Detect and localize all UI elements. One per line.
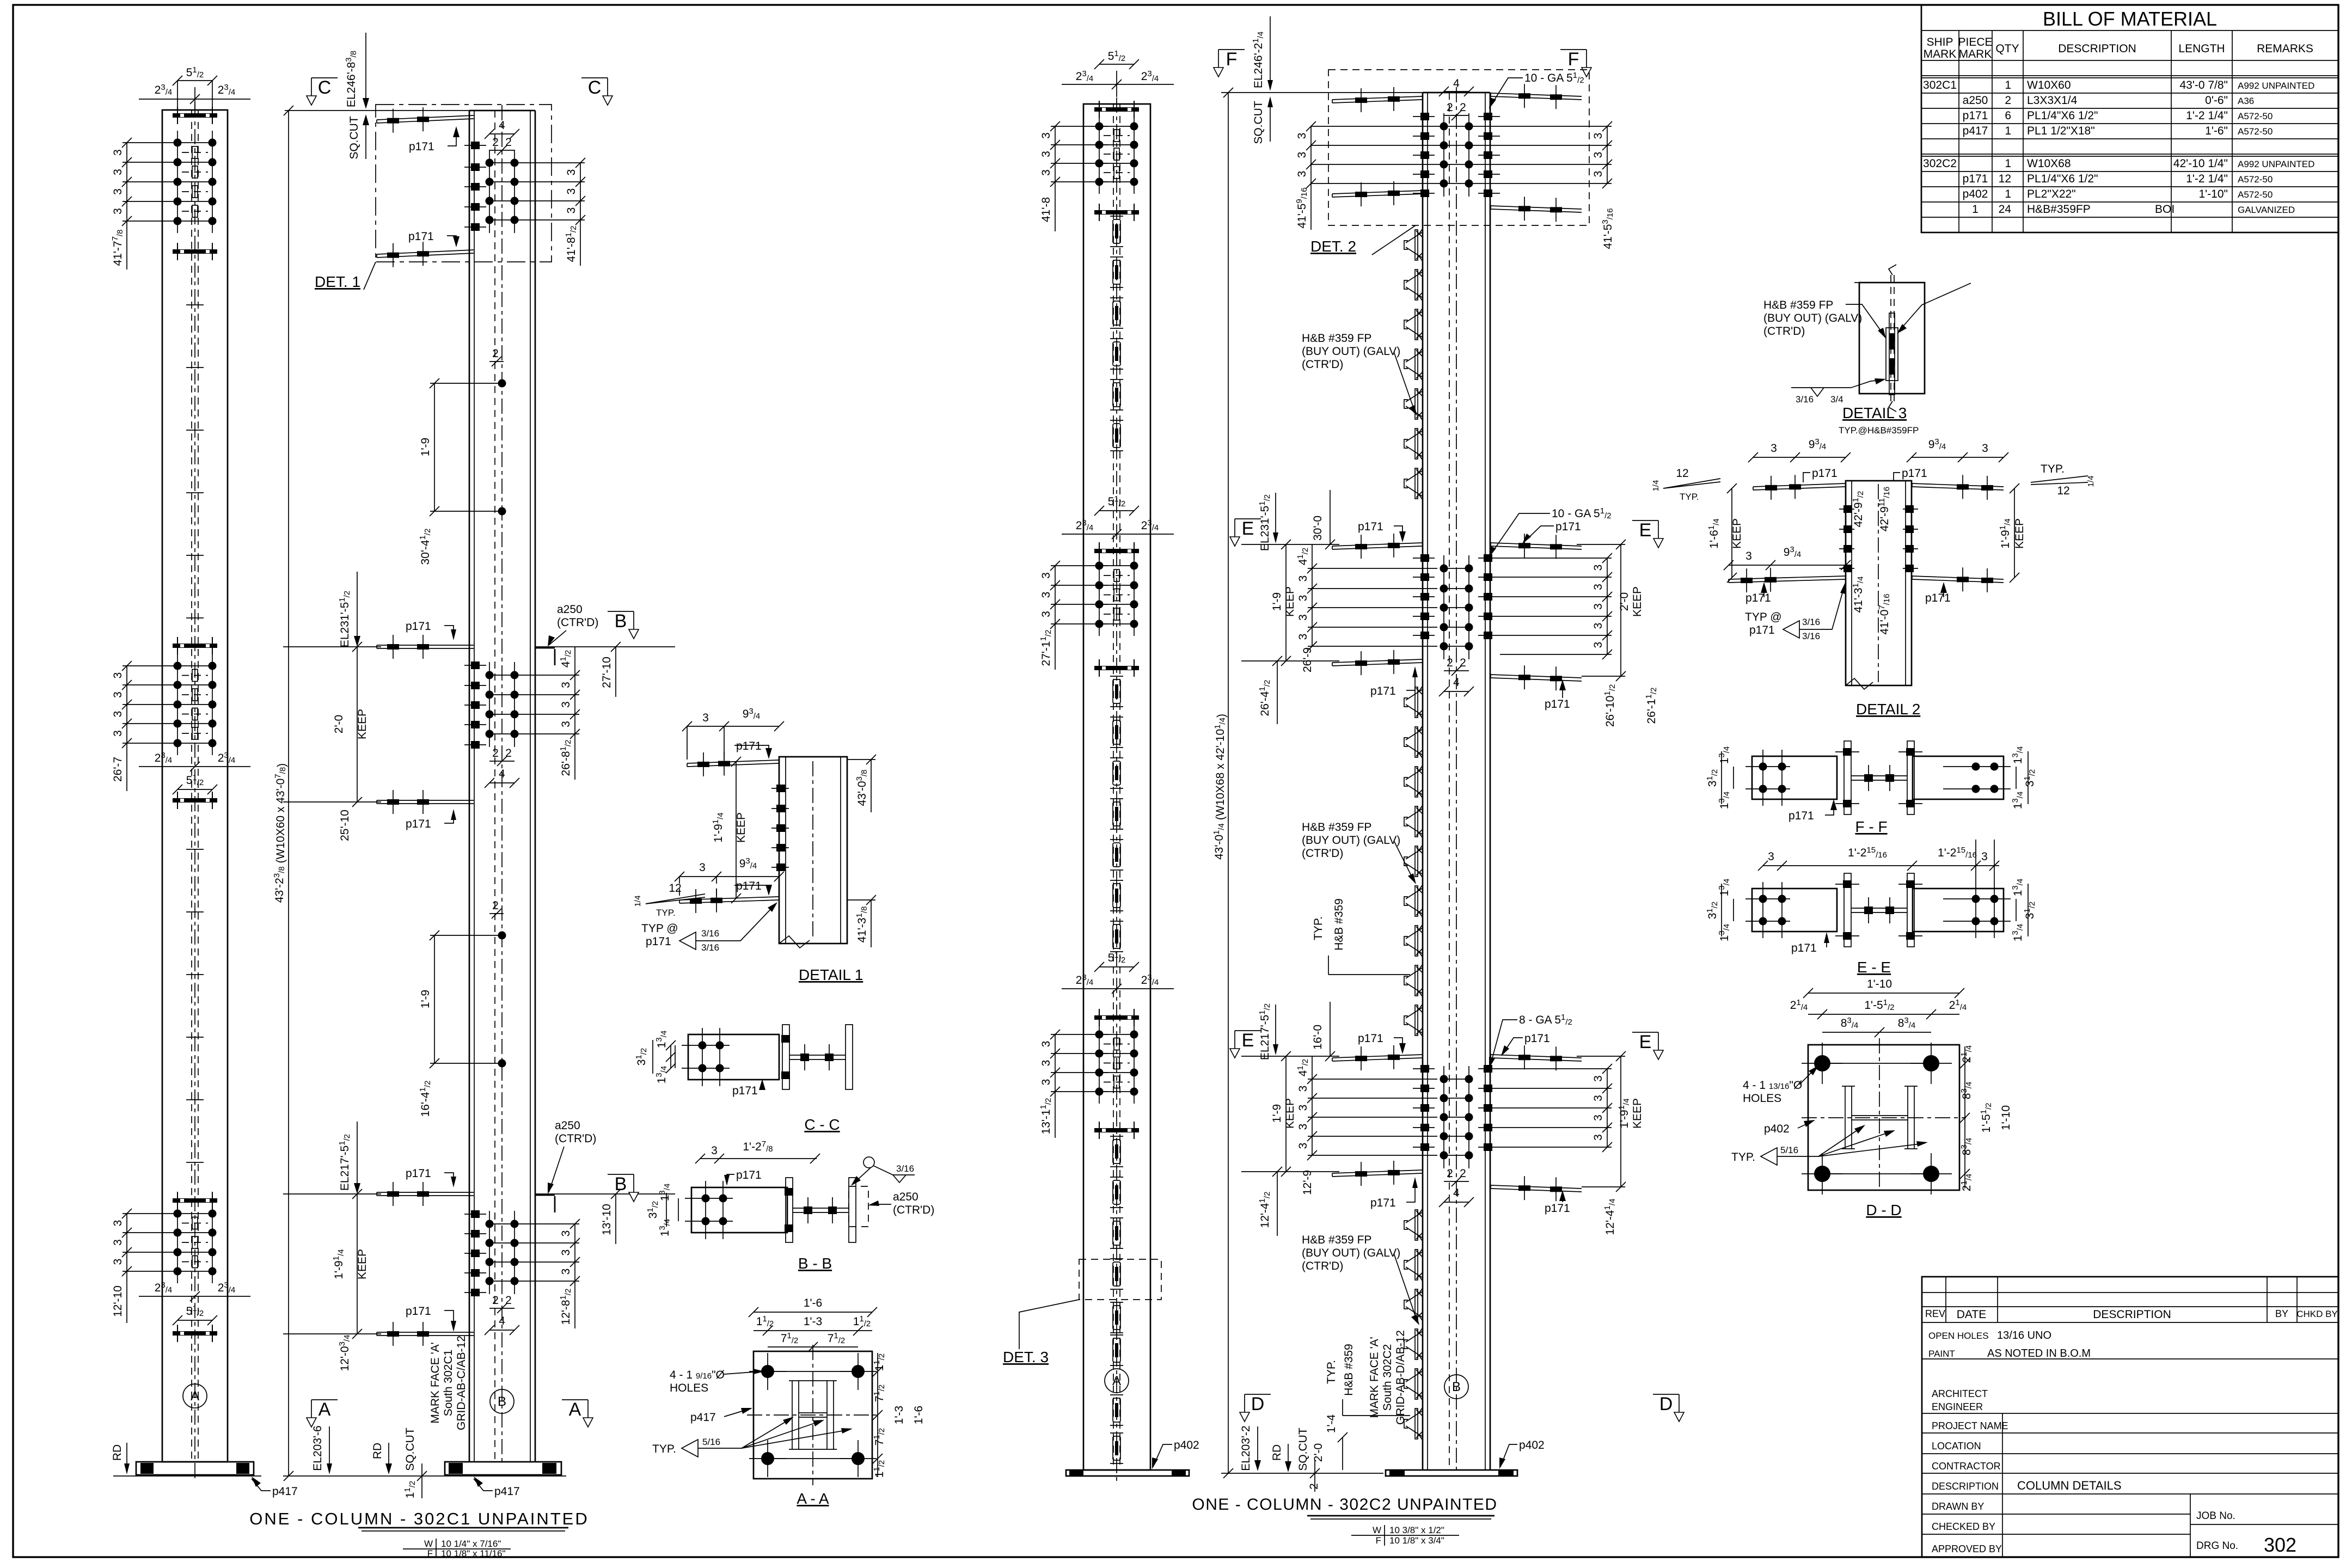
svg-text:A: A bbox=[569, 1399, 581, 1420]
svg-text:302C2: 302C2 bbox=[1923, 157, 1957, 170]
svg-text:DRG No.: DRG No. bbox=[2196, 1540, 2238, 1552]
svg-text:DATE: DATE bbox=[1957, 1308, 1986, 1321]
svg-text:SQ.CUT: SQ.CUT bbox=[1252, 101, 1265, 144]
svg-text:OPEN HOLES: OPEN HOLES bbox=[1928, 1331, 1989, 1341]
svg-text:REV.: REV. bbox=[1925, 1308, 1947, 1319]
svg-text:SQ.CUT: SQ.CUT bbox=[1297, 1428, 1309, 1471]
svg-text:H&B #359 FP: H&B #359 FP bbox=[1302, 1234, 1371, 1246]
svg-text:F: F bbox=[1376, 1535, 1381, 1546]
svg-text:3: 3 bbox=[1745, 550, 1752, 562]
svg-text:3/16: 3/16 bbox=[701, 942, 719, 953]
svg-text:1/4: 1/4 bbox=[2086, 476, 2096, 487]
svg-text:3: 3 bbox=[1297, 575, 1309, 582]
svg-text:25'-10: 25'-10 bbox=[339, 810, 351, 841]
svg-text:302: 302 bbox=[2264, 1534, 2296, 1556]
svg-text:2: 2 bbox=[492, 1294, 499, 1307]
svg-text:TYP @: TYP @ bbox=[641, 922, 678, 935]
base plate p417 web view bbox=[445, 1462, 561, 1475]
svg-text:12'-9: 12'-9 bbox=[1301, 1170, 1314, 1195]
svg-text:KEEP: KEEP bbox=[356, 1249, 369, 1279]
svg-text:1'-10: 1'-10 bbox=[2000, 1105, 2012, 1130]
svg-text:p171: p171 bbox=[736, 740, 762, 752]
middle cluster bottom gage dims 2 2 / 4 bbox=[485, 747, 519, 788]
p171 labels bottom cluster bbox=[406, 1167, 456, 1332]
svg-text:CHECKED BY: CHECKED BY bbox=[1932, 1521, 1995, 1532]
p171 labels top cluster bbox=[408, 126, 460, 247]
svg-text:3/16: 3/16 bbox=[1796, 394, 1814, 405]
svg-text:2: 2 bbox=[1447, 657, 1453, 669]
svg-text:p171: p171 bbox=[1745, 592, 1771, 604]
svg-text:3: 3 bbox=[112, 188, 124, 195]
svg-text:C: C bbox=[318, 77, 332, 98]
svg-text:(BUY OUT) (GALV): (BUY OUT) (GALV) bbox=[1302, 834, 1400, 847]
svg-text:H&B #359 FP: H&B #359 FP bbox=[1302, 332, 1371, 345]
svg-text:3: 3 bbox=[1592, 1095, 1604, 1101]
svg-text:KEEP: KEEP bbox=[2013, 518, 2026, 549]
302C1 flange middle cluster dims bbox=[112, 661, 250, 794]
svg-text:3: 3 bbox=[1592, 642, 1604, 648]
MARK FACE note 302C1 bbox=[429, 1336, 468, 1430]
DET.1 boundary box bbox=[376, 105, 552, 262]
svg-text:p417: p417 bbox=[690, 1411, 716, 1424]
bottom cluster right dims bbox=[514, 1189, 675, 1328]
svg-text:H&B #359 FP: H&B #359 FP bbox=[1302, 821, 1371, 834]
svg-text:13'-10: 13'-10 bbox=[601, 1204, 613, 1235]
svg-text:3: 3 bbox=[1296, 133, 1308, 139]
svg-text:3: 3 bbox=[1040, 169, 1052, 176]
svg-text:42'-10 1/4": 42'-10 1/4" bbox=[2173, 157, 2228, 170]
svg-text:PL2"X22": PL2"X22" bbox=[2027, 188, 2076, 200]
svg-text:RD: RD bbox=[111, 1444, 124, 1461]
svg-text:E: E bbox=[1639, 520, 1652, 541]
svg-text:DETAIL 2: DETAIL 2 bbox=[1856, 701, 1920, 718]
svg-text:LENGTH: LENGTH bbox=[2178, 42, 2225, 55]
svg-text:p171: p171 bbox=[1358, 520, 1383, 533]
svg-text:2: 2 bbox=[505, 136, 512, 149]
svg-text:H&B#359FP: H&B#359FP bbox=[2027, 203, 2091, 216]
svg-text:1'-3: 1'-3 bbox=[804, 1315, 822, 1328]
302C2 web middle cluster p171 plates and bolts bbox=[1332, 534, 1582, 690]
svg-text:4: 4 bbox=[1453, 1187, 1460, 1199]
svg-text:PAINT: PAINT bbox=[1928, 1349, 1955, 1359]
svg-text:2: 2 bbox=[1460, 657, 1466, 669]
svg-text:30'-0: 30'-0 bbox=[1312, 516, 1324, 541]
svg-text:(CTR'D): (CTR'D) bbox=[557, 616, 598, 629]
svg-text:PIECE: PIECE bbox=[1958, 36, 1992, 48]
mark A bubble (302C1) bbox=[183, 1384, 207, 1408]
svg-text:KEEP: KEEP bbox=[1284, 1098, 1296, 1129]
svg-text:5/16: 5/16 bbox=[1780, 1145, 1798, 1155]
svg-text:GRID-AB-C/AB-12: GRID-AB-C/AB-12 bbox=[455, 1336, 468, 1430]
svg-text:PL1/4"X6 1/2": PL1/4"X6 1/2" bbox=[2027, 173, 2098, 185]
svg-text:4: 4 bbox=[499, 768, 505, 780]
svg-text:3/16: 3/16 bbox=[1802, 631, 1820, 641]
TYP / H&B #359 rotated labels bbox=[1312, 898, 1410, 1470]
svg-text:KEEP: KEEP bbox=[1284, 586, 1296, 617]
svg-text:2: 2 bbox=[492, 136, 499, 149]
svg-text:3: 3 bbox=[1040, 1079, 1052, 1086]
EL203-2 note 302C2 bbox=[1240, 1425, 1320, 1492]
svg-text:A572-50: A572-50 bbox=[2238, 189, 2273, 200]
svg-text:27'-10: 27'-10 bbox=[601, 657, 613, 688]
svg-text:(CTR'D): (CTR'D) bbox=[1763, 325, 1805, 338]
top cluster dims 302C2 bbox=[1295, 71, 1615, 249]
svg-text:43'-01/4 (W10X68 x 42'-101/4): 43'-01/4 (W10X68 x 42'-101/4) bbox=[1212, 714, 1228, 860]
svg-text:302C1: 302C1 bbox=[1923, 79, 1957, 91]
svg-text:3: 3 bbox=[1592, 565, 1604, 571]
middle cluster left dims 302C2 bbox=[1241, 490, 1437, 724]
svg-text:p417: p417 bbox=[1963, 125, 1988, 137]
svg-text:1'-3: 1'-3 bbox=[893, 1406, 905, 1424]
svg-text:3: 3 bbox=[1297, 1086, 1309, 1092]
a250 angle clip at EL231 bbox=[536, 603, 598, 665]
302C1 flange view middle connection cluster bbox=[173, 637, 217, 809]
svg-text:DRAWN BY: DRAWN BY bbox=[1932, 1501, 1984, 1512]
column 302C1 web view bbox=[283, 105, 566, 1498]
svg-text:p402: p402 bbox=[1764, 1123, 1790, 1135]
svg-text:3/4: 3/4 bbox=[1830, 394, 1843, 405]
svg-text:AS NOTED IN B.O.M: AS NOTED IN B.O.M bbox=[1987, 1347, 2091, 1359]
scale table W/F 302C1 bbox=[403, 1539, 511, 1559]
mark B bubble (302C2 web) bbox=[1444, 1375, 1468, 1399]
svg-text:(BUY OUT) (GALV): (BUY OUT) (GALV) bbox=[1302, 1247, 1400, 1259]
302C1 web bottom cluster p171 plates and bolts bbox=[377, 1182, 519, 1346]
svg-text:6: 6 bbox=[2005, 109, 2011, 122]
DETAIL 2 drawing bbox=[1651, 437, 2096, 718]
svg-text:3: 3 bbox=[560, 701, 572, 708]
svg-text:H&B #359 FP: H&B #359 FP bbox=[1763, 299, 1833, 311]
svg-text:p171: p171 bbox=[1791, 942, 1817, 954]
lower cluster right dims 302C2 bbox=[1489, 1013, 1644, 1235]
svg-text:B: B bbox=[1452, 1380, 1461, 1394]
svg-text:12: 12 bbox=[2057, 485, 2069, 497]
svg-text:3: 3 bbox=[560, 682, 572, 688]
svg-text:24: 24 bbox=[1999, 203, 2012, 216]
svg-text:3: 3 bbox=[560, 1269, 572, 1275]
svg-text:W: W bbox=[1373, 1525, 1381, 1535]
svg-text:2: 2 bbox=[492, 899, 499, 912]
svg-text:E: E bbox=[1242, 518, 1254, 539]
svg-text:4: 4 bbox=[499, 1315, 505, 1327]
middle cluster right dims 302C2 bbox=[1489, 506, 1658, 727]
svg-text:p171: p171 bbox=[1545, 1202, 1570, 1215]
svg-text:A992 UNPAINTED: A992 UNPAINTED bbox=[2238, 159, 2314, 169]
svg-text:DESCRIPTION: DESCRIPTION bbox=[2058, 42, 2136, 55]
DET. 3 label bbox=[1003, 1300, 1079, 1365]
302C1 flange view bottom connection cluster bbox=[173, 1192, 217, 1342]
svg-text:W10X60: W10X60 bbox=[2027, 79, 2071, 91]
svg-text:2: 2 bbox=[492, 747, 499, 759]
column 302C2 web view bbox=[1221, 87, 1545, 1476]
elevation datum top 302C2 bbox=[1212, 16, 1423, 1478]
svg-text:1: 1 bbox=[2005, 188, 2011, 200]
svg-text:3: 3 bbox=[702, 712, 709, 724]
svg-text:RD: RD bbox=[1271, 1444, 1283, 1461]
column 302C1 flange view bbox=[136, 65, 298, 1498]
top width dims 5 1/2 and 2 3/4 bbox=[139, 65, 250, 122]
svg-text:12: 12 bbox=[1676, 467, 1688, 480]
svg-text:3: 3 bbox=[1592, 584, 1604, 590]
RD note left column bbox=[111, 1443, 261, 1476]
svg-text:2: 2 bbox=[1447, 1167, 1453, 1180]
svg-text:D - D: D - D bbox=[1866, 1202, 1901, 1218]
section D-D base plate plan bbox=[1731, 978, 2012, 1218]
svg-text:a250: a250 bbox=[555, 1119, 580, 1132]
DETAIL 1 drawing bbox=[633, 707, 876, 983]
svg-text:p171: p171 bbox=[1358, 1032, 1383, 1045]
svg-text:12'-10: 12'-10 bbox=[112, 1285, 124, 1317]
svg-text:H&B #359: H&B #359 bbox=[1333, 898, 1345, 951]
svg-text:3: 3 bbox=[1297, 614, 1309, 621]
svg-text:BILL OF MATERIAL: BILL OF MATERIAL bbox=[2043, 8, 2217, 30]
svg-text:26'-7: 26'-7 bbox=[112, 757, 124, 782]
svg-text:p171: p171 bbox=[1524, 1032, 1550, 1045]
svg-text:1: 1 bbox=[2005, 125, 2011, 137]
E-E top dims bbox=[1758, 846, 1999, 976]
svg-text:C: C bbox=[588, 77, 602, 98]
svg-text:p171: p171 bbox=[406, 1305, 431, 1318]
svg-text:2: 2 bbox=[505, 1294, 512, 1307]
svg-text:p171: p171 bbox=[736, 1169, 762, 1181]
svg-text:3: 3 bbox=[565, 207, 578, 214]
svg-text:ONE - COLUMN - 302C2 UNPAINTE: ONE - COLUMN - 302C2 UNPAINTED bbox=[1192, 1496, 1497, 1514]
top cluster gage dims 4 / 2 2 bbox=[485, 119, 519, 155]
svg-text:TYP.@H&B#359FP: TYP.@H&B#359FP bbox=[1839, 425, 1919, 436]
svg-text:26'-9: 26'-9 bbox=[1301, 647, 1314, 672]
svg-text:DETAIL 3: DETAIL 3 bbox=[1842, 405, 1907, 421]
svg-text:p171: p171 bbox=[1925, 592, 1951, 604]
svg-text:TYP.: TYP. bbox=[1325, 1360, 1338, 1384]
svg-text:3: 3 bbox=[112, 169, 124, 175]
svg-text:MARK FACE 'A': MARK FACE 'A' bbox=[429, 1342, 442, 1423]
svg-text:1: 1 bbox=[2005, 79, 2011, 91]
svg-text:(CTR'D): (CTR'D) bbox=[893, 1204, 934, 1216]
svg-text:3: 3 bbox=[565, 169, 578, 176]
svg-text:p171: p171 bbox=[1963, 109, 1988, 122]
bottom cluster gage dims 2 2 / 4 bbox=[485, 1294, 519, 1335]
svg-text:3: 3 bbox=[1040, 1041, 1052, 1048]
svg-text:MARK FACE 'A': MARK FACE 'A' bbox=[1368, 1337, 1381, 1418]
svg-text:GALVANIZED: GALVANIZED bbox=[2238, 205, 2295, 215]
svg-text:3: 3 bbox=[112, 1259, 124, 1265]
svg-text:10 1/8" x 11/16": 10 1/8" x 11/16" bbox=[441, 1548, 506, 1559]
svg-text:3: 3 bbox=[112, 1220, 124, 1227]
svg-text:KEEP: KEEP bbox=[735, 812, 748, 843]
svg-text:p171: p171 bbox=[1370, 1197, 1396, 1209]
column 302C2 flange view bbox=[1062, 49, 1199, 1481]
svg-text:3: 3 bbox=[699, 861, 706, 874]
svg-text:2: 2 bbox=[1460, 1167, 1466, 1180]
svg-text:SQ.CUT: SQ.CUT bbox=[348, 116, 360, 160]
svg-text:SHIP: SHIP bbox=[1926, 36, 1953, 48]
svg-text:p171: p171 bbox=[409, 140, 434, 153]
svg-text:3: 3 bbox=[560, 721, 572, 727]
302C1 web top cluster p171 plates and bolts bbox=[377, 107, 519, 267]
svg-text:(BUY OUT) (GALV): (BUY OUT) (GALV) bbox=[1302, 345, 1400, 358]
svg-text:3: 3 bbox=[1981, 850, 1988, 863]
svg-text:W: W bbox=[424, 1539, 433, 1549]
svg-text:p171: p171 bbox=[1749, 624, 1775, 636]
centerline bbox=[194, 102, 195, 1478]
svg-text:1'-2 1/4": 1'-2 1/4" bbox=[2186, 109, 2228, 122]
svg-text:A992 UNPAINTED: A992 UNPAINTED bbox=[2238, 81, 2314, 91]
svg-text:DESCRIPTION: DESCRIPTION bbox=[2093, 1308, 2171, 1321]
svg-text:2: 2 bbox=[1447, 101, 1453, 114]
svg-text:3: 3 bbox=[560, 1230, 572, 1237]
svg-text:A572-50: A572-50 bbox=[2238, 126, 2273, 137]
svg-text:W10X68: W10X68 bbox=[2027, 157, 2071, 170]
svg-text:1'-4: 1'-4 bbox=[1325, 1414, 1338, 1434]
302C1 flange top cluster dims bbox=[111, 138, 180, 269]
svg-text:(BUY OUT) (GALV): (BUY OUT) (GALV) bbox=[1763, 312, 1862, 324]
svg-text:TYP.: TYP. bbox=[656, 908, 676, 918]
svg-text:3: 3 bbox=[1297, 595, 1309, 602]
svg-text:3: 3 bbox=[1592, 152, 1604, 158]
H&B clip chain symbols 302C2 flange view bbox=[1110, 216, 1123, 1463]
svg-text:A572-50: A572-50 bbox=[2238, 174, 2273, 185]
svg-text:PL1 1/2"X18": PL1 1/2"X18" bbox=[2027, 125, 2095, 137]
svg-text:HOLES: HOLES bbox=[670, 1382, 708, 1394]
svg-text:p171: p171 bbox=[1788, 810, 1814, 822]
svg-text:3: 3 bbox=[112, 149, 124, 156]
svg-text:3: 3 bbox=[1297, 1124, 1309, 1130]
svg-text:3: 3 bbox=[711, 1144, 718, 1157]
p171 labels middle cluster bbox=[406, 620, 456, 830]
svg-text:C - C: C - C bbox=[804, 1116, 840, 1133]
svg-text:p171: p171 bbox=[1812, 467, 1837, 480]
svg-text:D: D bbox=[1659, 1394, 1673, 1414]
svg-text:A: A bbox=[318, 1399, 331, 1420]
svg-text:TYP.: TYP. bbox=[652, 1443, 676, 1455]
svg-text:F: F bbox=[1226, 49, 1238, 70]
svg-text:3/16: 3/16 bbox=[896, 1163, 914, 1174]
302C1 flange bottom cluster dims bbox=[112, 1209, 250, 1325]
svg-text:43'-0 7/8": 43'-0 7/8" bbox=[2179, 79, 2228, 91]
svg-text:3: 3 bbox=[560, 1249, 572, 1256]
section A-A base plate plan bbox=[652, 1297, 925, 1507]
svg-text:E - E: E - E bbox=[1857, 959, 1891, 976]
mark B bubble (302C1 web) bbox=[490, 1389, 514, 1413]
svg-text:1'-10: 1'-10 bbox=[1867, 978, 1892, 990]
svg-text:ENGINEER: ENGINEER bbox=[1932, 1401, 1983, 1412]
svg-text:a250: a250 bbox=[1963, 94, 1988, 107]
svg-text:REMARKS: REMARKS bbox=[2257, 42, 2313, 55]
svg-text:p171: p171 bbox=[736, 880, 762, 892]
svg-text:1'-6: 1'-6 bbox=[804, 1297, 822, 1309]
svg-text:p402: p402 bbox=[1519, 1439, 1545, 1451]
2 2 4 dims middle cluster bbox=[1439, 657, 1474, 696]
H&B clip side symbols 302C2 web view bbox=[1404, 229, 1423, 1440]
title ONE - COLUMN - 302C2 UNPAINTED bbox=[1192, 1496, 1497, 1519]
svg-text:p171: p171 bbox=[646, 935, 671, 948]
svg-text:p171: p171 bbox=[1902, 467, 1927, 480]
svg-text:3: 3 bbox=[112, 208, 124, 215]
svg-text:TYP @: TYP @ bbox=[1745, 611, 1782, 623]
svg-text:DET. 1: DET. 1 bbox=[315, 273, 360, 290]
svg-text:p417: p417 bbox=[272, 1485, 298, 1498]
svg-text:41'-8: 41'-8 bbox=[1040, 197, 1052, 222]
svg-text:1'-9: 1'-9 bbox=[1271, 592, 1283, 611]
svg-text:LOCATION: LOCATION bbox=[1932, 1441, 1981, 1451]
base plate p402 flange view bbox=[1066, 1470, 1189, 1476]
svg-text:1'-9: 1'-9 bbox=[419, 990, 432, 1008]
svg-text:EL203'-6: EL203'-6 bbox=[311, 1425, 324, 1471]
svg-text:5/16: 5/16 bbox=[702, 1437, 720, 1447]
svg-text:3/16: 3/16 bbox=[701, 928, 719, 939]
svg-text:KEEP: KEEP bbox=[356, 709, 369, 739]
svg-text:H&B #359: H&B #359 bbox=[1343, 1344, 1355, 1396]
svg-text:3: 3 bbox=[1297, 634, 1309, 640]
svg-text:4: 4 bbox=[1453, 676, 1460, 689]
svg-text:1'-2 1/4": 1'-2 1/4" bbox=[2186, 173, 2228, 185]
svg-text:3: 3 bbox=[1296, 171, 1308, 177]
svg-text:KEEP: KEEP bbox=[1631, 586, 1644, 617]
302C1 web middle cluster p171 plates and bolts bbox=[377, 635, 519, 814]
svg-text:DETAIL 1: DETAIL 1 bbox=[799, 966, 863, 983]
section C-C bbox=[634, 1025, 853, 1133]
single web bolts between clusters 302C1 bbox=[418, 347, 506, 1117]
svg-text:3: 3 bbox=[1592, 133, 1604, 139]
svg-text:1'-6: 1'-6 bbox=[912, 1406, 925, 1424]
svg-text:A: A bbox=[1112, 1374, 1121, 1388]
DET.2 boundary box bbox=[1328, 70, 1589, 225]
svg-text:p171: p171 bbox=[1555, 520, 1581, 533]
svg-text:3/16: 3/16 bbox=[1802, 617, 1820, 627]
centerline slot marks 302C1 flange view bbox=[186, 305, 204, 1162]
svg-text:South 302C2: South 302C2 bbox=[1381, 1344, 1394, 1411]
svg-text:a250: a250 bbox=[557, 603, 583, 616]
DET. 2 label bbox=[1310, 225, 1416, 255]
svg-text:2'-0: 2'-0 bbox=[1618, 592, 1631, 611]
svg-text:APPROVED BY: APPROVED BY bbox=[1932, 1543, 2002, 1554]
svg-text:(CTR'D): (CTR'D) bbox=[1302, 847, 1343, 860]
svg-text:1/4: 1/4 bbox=[1651, 480, 1661, 492]
DETAIL 3 drawing bbox=[1763, 265, 1971, 436]
svg-text:E: E bbox=[1242, 1030, 1254, 1051]
svg-text:2'-0: 2'-0 bbox=[1312, 1443, 1325, 1462]
section B-B bbox=[646, 1140, 934, 1272]
svg-text:13/16 UNO: 13/16 UNO bbox=[1997, 1330, 2051, 1342]
svg-text:3: 3 bbox=[112, 691, 124, 698]
302C2 flange view middle cluster bbox=[1094, 542, 1139, 677]
H&B #359 FP labels 302C2 bbox=[1302, 332, 1417, 416]
svg-text:3: 3 bbox=[1592, 171, 1604, 177]
top width dims 302C2 bbox=[1062, 49, 1174, 97]
svg-text:South 302C1: South 302C1 bbox=[442, 1350, 455, 1417]
svg-text:2: 2 bbox=[2005, 94, 2011, 107]
svg-text:2: 2 bbox=[1308, 1483, 1320, 1490]
svg-text:p417: p417 bbox=[494, 1485, 520, 1498]
svg-text:p171: p171 bbox=[732, 1085, 758, 1097]
svg-text:1'-9: 1'-9 bbox=[1271, 1104, 1283, 1123]
svg-text:DET. 3: DET. 3 bbox=[1003, 1349, 1049, 1365]
EL203-6 datum note bbox=[311, 1425, 427, 1498]
svg-text:KEEP: KEEP bbox=[1631, 1098, 1644, 1129]
title block bbox=[1922, 1277, 2338, 1557]
svg-text:TYP.: TYP. bbox=[1680, 492, 1699, 502]
302C2 flange view lower cluster bbox=[1094, 1009, 1139, 1139]
svg-text:PROJECT NAME: PROJECT NAME bbox=[1932, 1420, 2008, 1431]
svg-text:3: 3 bbox=[1592, 603, 1604, 610]
svg-text:p402: p402 bbox=[1174, 1439, 1199, 1451]
svg-text:CONTRACTOR: CONTRACTOR bbox=[1932, 1461, 2001, 1472]
svg-text:2: 2 bbox=[1460, 101, 1466, 114]
svg-text:12: 12 bbox=[669, 882, 681, 895]
svg-text:1'-9: 1'-9 bbox=[419, 438, 432, 456]
svg-text:DET. 2: DET. 2 bbox=[1310, 238, 1356, 255]
svg-text:3: 3 bbox=[1982, 442, 1988, 455]
svg-text:3: 3 bbox=[1592, 623, 1604, 629]
